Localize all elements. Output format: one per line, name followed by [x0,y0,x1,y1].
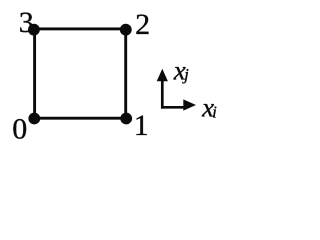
node 3 (top-left) [28,24,40,36]
axis x_i arrowhead [183,99,196,110]
square element outline (edges 0-1,1-2,2-3,3-0) [35,29,126,118]
axis x_j arrowhead [157,69,168,82]
node 1 (bottom-right) [120,113,132,125]
svg-text:2: 2 [135,8,150,41]
node 2 (top-right) [120,24,132,36]
svg-text:3: 3 [19,6,34,39]
svg-text:0: 0 [12,112,27,145]
svg-text:1: 1 [134,109,149,142]
axis x_i arrow shaft (horizontal) [161,106,185,109]
axis x_j arrow shaft (vertical) [161,81,164,109]
node 0 (bottom-left) [28,113,40,125]
